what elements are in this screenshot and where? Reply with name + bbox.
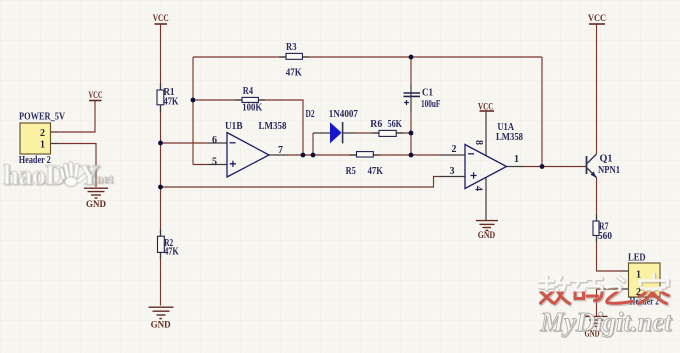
svg-text:VCC: VCC: [588, 13, 606, 24]
svg-text:560: 560: [598, 231, 612, 242]
svg-text:47K: 47K: [368, 166, 383, 177]
svg-text:1N4007: 1N4007: [329, 109, 358, 120]
svg-text:3: 3: [450, 166, 455, 177]
svg-text:R4: R4: [243, 86, 253, 97]
svg-text:GND: GND: [478, 230, 495, 241]
svg-text:VCC: VCC: [478, 101, 493, 112]
svg-text:Q1: Q1: [600, 154, 613, 165]
svg-text:GND: GND: [86, 199, 106, 210]
svg-text:D2: D2: [306, 109, 315, 120]
svg-text:R5: R5: [346, 166, 356, 177]
svg-text:2: 2: [40, 128, 45, 139]
svg-text:C1: C1: [422, 88, 433, 99]
svg-text:POWER_5V: POWER_5V: [19, 112, 66, 123]
svg-text:7: 7: [278, 145, 283, 156]
svg-text:LED: LED: [628, 252, 646, 263]
svg-text:net: net: [96, 171, 114, 186]
svg-text:1: 1: [514, 154, 519, 165]
svg-text:R3: R3: [286, 42, 297, 53]
svg-text:1: 1: [636, 269, 641, 280]
svg-text:5: 5: [212, 156, 217, 167]
svg-text:6: 6: [212, 135, 217, 146]
svg-text:LM358: LM358: [259, 121, 287, 132]
svg-text:NPN1: NPN1: [598, 165, 620, 176]
svg-text:8: 8: [473, 140, 484, 145]
svg-text:VCC: VCC: [153, 13, 169, 24]
svg-text:GND: GND: [151, 319, 171, 330]
svg-text:VCC: VCC: [89, 90, 103, 101]
svg-text:1: 1: [40, 140, 45, 151]
svg-text:100uF: 100uF: [421, 99, 440, 110]
svg-text:56K: 56K: [388, 119, 403, 130]
svg-text:LM358: LM358: [496, 132, 523, 143]
svg-text:47K: 47K: [164, 97, 179, 108]
svg-text:47K: 47K: [164, 247, 179, 258]
svg-text:2: 2: [452, 144, 457, 155]
svg-text:MyDigit.net: MyDigit.net: [540, 307, 673, 337]
svg-text:U1B: U1B: [225, 121, 243, 132]
svg-text:haoD: haoD: [3, 160, 65, 192]
svg-text:100K: 100K: [242, 103, 262, 114]
svg-text:4: 4: [473, 186, 484, 191]
svg-text:47K: 47K: [286, 68, 302, 79]
svg-text:R6: R6: [370, 119, 382, 130]
